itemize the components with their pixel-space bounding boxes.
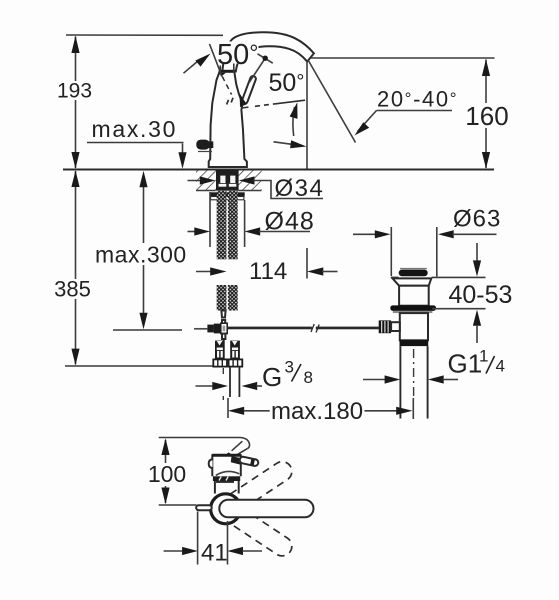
svg-text:G: G [262,362,282,392]
arrow max.300 top [139,171,147,188]
dimension G1 1/4 [363,379,386,381]
20-40 leader arrow [358,111,377,132]
handle hub reference line [159,504,197,506]
svg-text:Ø48: Ø48 [265,208,315,236]
faucet body (plan view) [212,455,241,476]
pull rod stub [196,505,212,510]
hose end fitting left [213,341,227,367]
dash-dot handle horizontal position [242,100,306,108]
pop-up rod left tail [194,328,207,330]
rod stub below fitting [222,334,225,339]
braided hose section 1 left [217,191,227,259]
connection tube [229,367,231,397]
drain upper body [399,286,429,306]
line from spout outlet to right [311,57,495,59]
spout tip reference line with hook [159,438,250,449]
lever handle (50 deg) [241,75,256,104]
arrow 160 top [482,59,490,76]
drain lower black band [400,340,429,346]
svg-text:8: 8 [304,368,313,387]
drain locknut [390,305,436,311]
max.30 leader line [87,142,184,144]
spout curve line [216,471,240,475]
cartridge dark band [213,476,240,481]
drain: O63 extension lines [391,227,437,277]
O63 arrows [353,233,376,235]
svg-text:193: 193 [57,80,92,103]
arrow 193 top [71,36,79,53]
dimension 100 [165,440,167,503]
tilted spout tip rod [232,441,243,451]
svg-text:385: 385 [54,277,91,302]
svg-text:114: 114 [249,258,287,285]
dimension O34 [188,180,207,182]
svg-text:Ø63: Ø63 [453,206,501,233]
spout base ticks [225,452,233,455]
svg-text:160: 160 [465,101,508,131]
rod connector block [391,322,400,331]
top reference line (max height) [66,34,223,36]
mounting washer plate [210,192,245,196]
svg-text:1: 1 [479,347,488,366]
rod knurled knob [379,320,391,333]
max.180 extension lines [227,398,229,418]
dimension 160 vertical [485,60,487,169]
svg-text:max.30: max.30 [92,116,178,142]
dashed lever lowered position [222,77,231,95]
svg-text:4: 4 [496,357,505,376]
braided hose section 2 right [228,285,238,311]
basin deck line right / 40-53 top extension [432,276,486,278]
dashed handle swung up [230,458,295,510]
swing ticks on neck [219,66,221,75]
left tab [209,459,213,468]
dashed hose centerline [222,368,224,403]
braided hose section 1 right [228,191,238,259]
countertop cross-section hatch left [196,171,216,191]
dimension O48 [210,192,245,247]
pop-up rod cross fitting [207,325,214,333]
svg-text:max.300: max.300 [95,242,187,268]
bottom reference line of 385 [65,365,213,367]
X marker with dot [249,54,273,83]
drain mid body [400,313,428,340]
svg-text:3: 3 [285,358,294,377]
lever handle (plan view) [219,500,313,518]
dimension max.180 [228,407,244,415]
svg-text:max.180: max.180 [271,398,363,425]
dimension max.300 vertical [143,186,145,313]
dimension 41 extension lines [198,512,228,565]
tailpipe [399,346,401,418]
dimension 114 [196,271,215,273]
arrow 160 bottom [482,152,490,169]
hose taper to rod [221,311,225,318]
arrow max.300 bottom [139,313,147,330]
arrow max.30 down [182,144,184,154]
leader arrow to lever tick [184,61,199,73]
braided hose section 2 left [217,285,227,311]
countertop line [63,169,494,171]
dimension 40-53 [476,243,478,262]
pop-up rod (plan view) [231,456,241,465]
faucet spout [222,32,314,71]
max.300 bottom reference line [113,329,182,331]
svg-text:41: 41 [201,540,228,567]
svg-text:20°-40°: 20°-40° [377,87,458,112]
50 deg upper annotation: tick for raised lever [210,44,223,77]
pop-up horizontal rod [227,327,312,330]
svg-text:Ø34: Ø34 [275,175,325,202]
lever base shadow [240,94,247,108]
pop-up rod knob (front view) [196,140,210,150]
arrow 193 bottom [71,152,79,169]
countertop cross-section hatch right [239,171,262,191]
hose end fitting right [229,341,243,367]
tailpipe centerline [413,349,415,396]
svg-text:G1: G1 [448,349,483,379]
dimension 41 [164,550,183,552]
basin deck line left stub [391,276,399,278]
arrow 385 top [71,170,79,187]
svg-text:50°: 50° [269,69,305,97]
drain plug cap [400,268,427,270]
label knockout [216,42,259,64]
dimension line 193/385 vertical [75,37,77,365]
svg-text:40-53: 40-53 [449,281,513,309]
handle hub ring [211,494,241,524]
rod break marks [311,324,314,332]
neck top bar [219,70,236,73]
spout outlet vertical line [306,62,308,169]
drain flange bell [393,278,432,285]
curved arrow up to dash line [293,107,295,136]
threaded shank [216,170,239,191]
arrow right to spout line [274,142,293,145]
water angle diagonal [308,60,356,143]
faucet body [209,72,247,167]
40-53 bottom extension [432,308,486,310]
svg-text:100: 100 [148,461,186,487]
20-40 underline [377,110,453,112]
dashed handle swung down [230,507,295,559]
arrow 385 bottom [71,349,79,366]
dimension G 3/8 [196,385,214,387]
